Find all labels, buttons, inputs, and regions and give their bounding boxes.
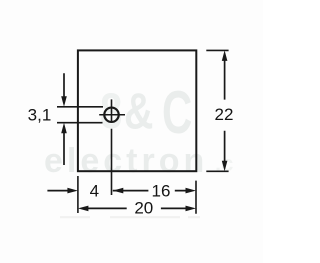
svg-text:C: C: [162, 79, 192, 146]
svg-text:22: 22: [215, 105, 234, 124]
svg-text:16: 16: [152, 181, 171, 200]
svg-text:20: 20: [134, 198, 153, 217]
svg-text:electron: electron: [44, 142, 208, 180]
svg-text:3,1: 3,1: [28, 106, 52, 125]
svg-text:4: 4: [90, 181, 99, 200]
svg-text:&: &: [124, 82, 153, 139]
